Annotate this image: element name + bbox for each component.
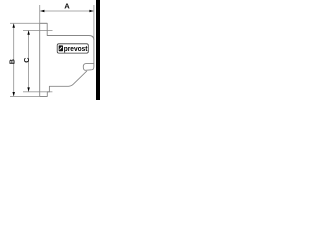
- extension line C-top: [23, 29, 53, 31]
- logo square white mark: [60, 47, 62, 50]
- logo black square: [59, 45, 63, 51]
- chamfer diagonal bottom-right: [69, 71, 87, 86]
- svg-text:A: A: [64, 1, 70, 10]
- extension line B-bottom: [10, 95, 47, 97]
- arrow B top: [12, 24, 15, 28]
- arrow C top: [27, 31, 30, 35]
- dimension line A: [40, 10, 93, 12]
- svg-text:prevost: prevost: [64, 44, 88, 53]
- coupling flange left edge: [39, 23, 41, 96]
- coupling flange bottom: [40, 86, 69, 96]
- svg-text:C: C: [22, 58, 31, 63]
- extension line A-right (above part): [93, 5, 95, 40]
- extension line B-top: [10, 22, 47, 24]
- svg-text:B: B: [8, 59, 17, 64]
- arrow B bottom: [12, 92, 15, 96]
- arrow A left: [40, 10, 44, 13]
- black page-edge bar: [96, 0, 100, 100]
- dimension line B: [13, 24, 15, 97]
- extension line A-left (above part): [39, 5, 41, 23]
- extension line C-bottom: [23, 91, 52, 93]
- coupling body outline (top profile): [40, 23, 94, 70]
- outlet tab bottom-right: [83, 64, 94, 71]
- arrow C bottom: [27, 87, 30, 91]
- prevost logo box: [57, 44, 88, 53]
- arrow A right: [89, 10, 93, 13]
- dimension line C: [28, 31, 30, 92]
